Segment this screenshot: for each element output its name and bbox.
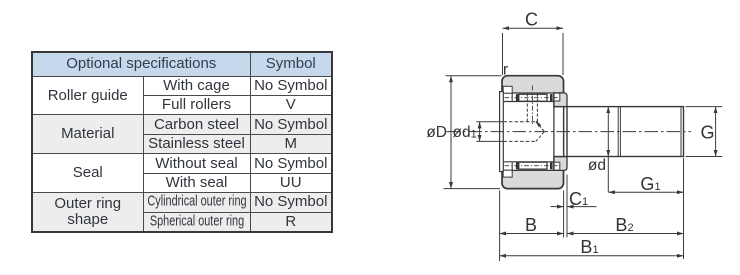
svg-text:B2: B2 (615, 215, 633, 235)
svg-text:B: B (525, 215, 537, 235)
svg-text:ød: ød (588, 157, 606, 174)
svg-text:øD: øD (426, 124, 447, 141)
svg-text:G1: G1 (640, 174, 660, 194)
svg-text:r: r (503, 62, 509, 79)
svg-text:B1: B1 (580, 237, 598, 257)
svg-text:G: G (700, 123, 714, 143)
svg-text:C: C (525, 10, 538, 30)
svg-text:ød1: ød1 (453, 124, 477, 141)
svg-text:C1: C1 (569, 189, 588, 209)
